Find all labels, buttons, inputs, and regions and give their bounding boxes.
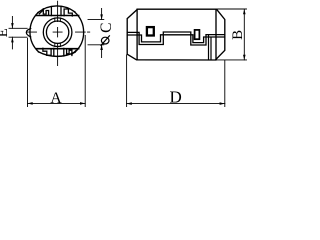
arrow D left [127,102,132,105]
dim A extension lines [28,36,86,107]
inner housing circle [43,18,72,47]
svg-text:C: C [98,23,115,33]
arrow E bottom [11,37,14,42]
ferrite bore circle [46,21,68,43]
vertical centerline [57,1,59,65]
arrow D right [220,102,225,105]
top block outline (flat with latches) [38,6,75,13]
top slit left [50,7,52,15]
arrow phiC top [100,14,103,19]
svg-text:E: E [0,28,11,37]
outer housing circle (left view, side arcs) [30,13,39,52]
top chord line [37,15,79,17]
dim E extension lines [9,28,27,37]
svg-text:A: A [50,90,62,107]
bottom slit right [63,48,65,56]
dim B extension lines [217,9,247,60]
top slit right [60,7,62,15]
ferrite gap tick bottom-right [59,43,61,46]
arrow phiC bottom [100,45,103,50]
bottom slit left [53,48,55,56]
svg-text:B: B [230,30,246,40]
svg-text:D: D [169,88,181,107]
dim B line [243,9,245,60]
slot below right latch [209,35,212,59]
bottom-left latch hook [43,48,51,55]
bottom chord line [37,48,79,50]
left hinge tab [26,29,30,37]
ferrite gap tick top-right [59,18,61,21]
top-right latch hook [64,9,72,16]
arrow A right [80,102,85,105]
dim phiC arrow lines [101,9,103,58]
seam upper meander line [127,32,225,45]
dim E arrow lines [11,17,13,49]
seam lower meander line [127,35,225,43]
label diameter symbol [101,35,110,45]
dim D line [127,103,225,105]
chamfer line top-right [215,9,217,60]
dim A line [28,102,86,104]
arrow E top [11,23,14,28]
arrow B top [243,9,246,14]
chamfer line top-left [136,9,138,60]
right view outline octagon [127,9,225,60]
dim phiC extension lines [88,20,104,45]
dim D extension lines [127,55,225,107]
bottom block outline [39,52,75,57]
ferrite gap tick bottom-left [54,43,56,46]
arrow A left [28,102,33,105]
bottom-right latch window [72,51,76,55]
horizontal centerline [27,31,90,33]
left latch post [147,27,154,35]
right latch post [195,30,200,39]
arrow B bottom [243,55,246,60]
ferrite gap tick top-left [54,18,56,21]
top-left latch window [39,10,43,14]
